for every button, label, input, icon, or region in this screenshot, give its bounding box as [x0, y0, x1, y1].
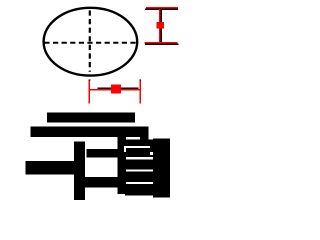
text block band B	[125, 148, 154, 157]
text block band A	[125, 140, 154, 147]
text block band E	[125, 184, 154, 196]
vertical dimension grip square	[156, 22, 164, 29]
vertical dimension bottom tick red	[144, 42, 177, 44]
horizontal dimension line black	[98, 88, 139, 90]
text block low arm	[85, 177, 118, 188]
text block bar 2 right-end dip	[140, 137, 148, 140]
text block bar 1	[47, 112, 135, 122]
horizontal dimension right extension line black tip	[139, 79, 141, 80]
text block white notch near right column	[150, 152, 153, 155]
text block inner column	[118, 136, 127, 194]
text block vertical stem	[74, 142, 85, 201]
center line vertical (dashed)	[89, 10, 91, 71]
horizontal dimension left extension line black tip	[89, 79, 91, 80]
horizontal dimension right extension line red	[139, 81, 141, 104]
text block white notch on inner column	[124, 146, 126, 152]
horizontal dimension line red	[89, 89, 141, 91]
text block slit closure near right column	[150, 146, 153, 148]
vertical dimension stem red	[159, 9, 161, 43]
text block dash (left)	[26, 161, 75, 174]
horizontal dimension left extension line red	[89, 81, 91, 104]
vertical dimension stem black	[161, 10, 163, 44]
ellipse outline	[44, 8, 138, 76]
text block bar 2	[31, 127, 149, 137]
text block mid arm	[87, 149, 118, 157]
vertical dimension bottom tick black	[145, 43, 178, 45]
vertical dimension top tick red	[146, 7, 178, 9]
text block band D	[125, 172, 154, 183]
text block right column	[153, 138, 170, 197]
vertical dimension top tick black	[145, 8, 178, 10]
text block band C	[125, 159, 154, 169]
horizontal dimension grip square	[111, 84, 121, 93]
center line horizontal (dashed)	[44, 42, 136, 44]
